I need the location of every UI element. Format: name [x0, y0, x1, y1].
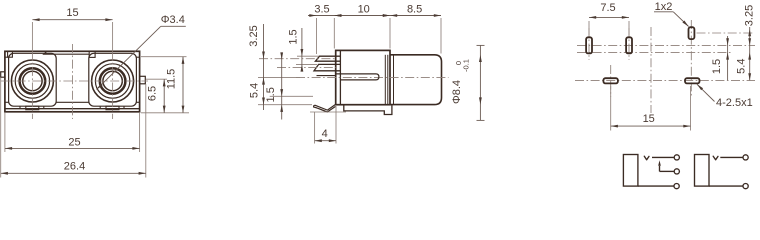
svg-text:Φ3.4: Φ3.4 [161, 14, 185, 26]
svg-text:1.5: 1.5 [265, 87, 277, 102]
svg-text:1.5: 1.5 [711, 59, 723, 74]
svg-text:-0.1: -0.1 [461, 59, 470, 72]
svg-text:10: 10 [358, 3, 370, 15]
svg-text:8.5: 8.5 [407, 3, 422, 15]
svg-text:3.25: 3.25 [744, 5, 756, 26]
svg-text:3.25: 3.25 [248, 25, 260, 46]
svg-text:11.5: 11.5 [166, 69, 178, 90]
svg-text:15: 15 [643, 113, 655, 125]
svg-text:15: 15 [66, 7, 78, 19]
svg-text:6.5: 6.5 [147, 86, 159, 101]
svg-text:25: 25 [68, 137, 80, 149]
svg-text:4-2.5x1: 4-2.5x1 [716, 97, 753, 109]
svg-text:5.4: 5.4 [736, 59, 748, 74]
svg-text:Φ8.4: Φ8.4 [451, 80, 463, 104]
svg-text:1.5: 1.5 [288, 29, 300, 44]
svg-text:5.4: 5.4 [248, 83, 260, 98]
svg-text:26.4: 26.4 [64, 160, 85, 172]
svg-text:4: 4 [322, 128, 328, 140]
svg-text:3.5: 3.5 [314, 3, 329, 15]
svg-text:7.5: 7.5 [600, 2, 615, 14]
